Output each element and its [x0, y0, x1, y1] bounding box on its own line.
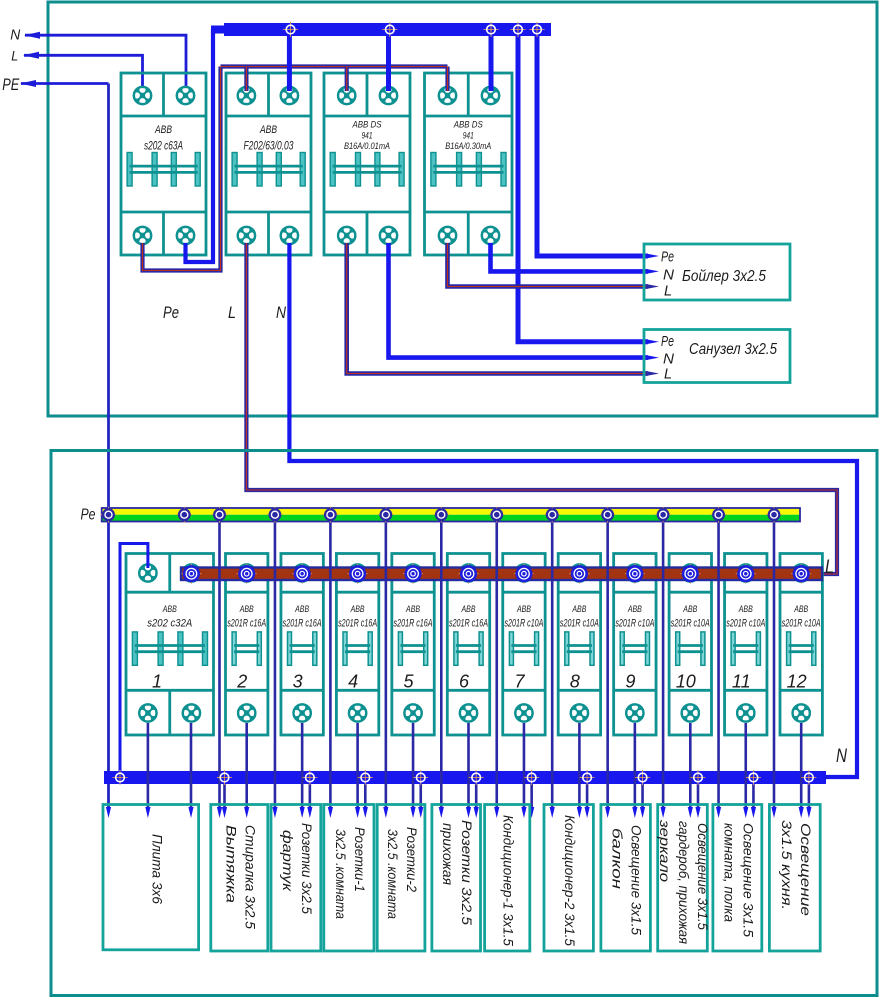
svg-text:N: N	[663, 267, 674, 284]
svg-text:Розетки-2: Розетки-2	[404, 827, 420, 892]
circuit breaker 7 ABB s201R c10А	[503, 554, 545, 736]
svg-text:12: 12	[787, 672, 807, 692]
wire L bathroom	[347, 243, 659, 376]
svg-text:s201R c10А: s201R c10А	[615, 618, 654, 630]
svg-text:фартук: фартук	[280, 830, 296, 893]
svg-text:941: 941	[362, 131, 373, 142]
N bus terminal bathroom Pe	[511, 22, 526, 37]
L bus terminals	[181, 564, 811, 584]
svg-text:ABB: ABB	[793, 604, 808, 615]
N bus terminal QF4	[484, 22, 499, 37]
wire PE to box 6	[439, 522, 444, 819]
wire N to box 10	[695, 784, 700, 818]
label Pe bus	[81, 507, 96, 524]
svg-text:PE: PE	[2, 75, 19, 94]
wire N to box 7	[529, 784, 534, 818]
label N node	[276, 303, 287, 322]
svg-text:s201R c16А: s201R c16А	[227, 618, 266, 630]
circuit breaker QF1 ABB s202 c63A	[121, 73, 206, 255]
svg-text:F202/63/0.03: F202/63/0.03	[244, 141, 294, 153]
svg-text:Бойлер 3х2.5: Бойлер 3х2.5	[682, 268, 766, 285]
load box 10 Освещение 3х1.5	[657, 805, 711, 952]
svg-text:11: 11	[732, 672, 751, 692]
N bus terminal QF2	[283, 22, 298, 37]
svg-text:L: L	[825, 557, 834, 578]
wire L to box 1	[145, 723, 150, 818]
svg-text:3х2.5 .комната: 3х2.5 .комната	[385, 829, 401, 919]
wire N loop from QF1 to N bus	[186, 29, 214, 262]
svg-text:941: 941	[463, 131, 474, 142]
load box bathroom	[644, 330, 790, 383]
svg-text:7: 7	[514, 672, 525, 692]
circuit breaker 8 ABB s201R c10А	[558, 554, 600, 736]
svg-text:10: 10	[676, 672, 696, 692]
svg-text:2: 2	[236, 672, 247, 692]
top panel enclosure	[48, 2, 877, 416]
wire L to box 7	[521, 723, 526, 818]
wire PE to box 4	[328, 522, 333, 819]
load box 6 Розетки 3х2.5	[432, 805, 481, 952]
wire N to box 6	[474, 784, 479, 818]
svg-text:ABB: ABB	[162, 604, 177, 615]
svg-text:Розетки-1: Розетки-1	[352, 827, 368, 892]
load box boiler	[644, 244, 790, 300]
label N bus	[836, 746, 847, 767]
wire L feed to lower panel	[246, 243, 837, 574]
svg-text:s201R c10А: s201R c10А	[671, 618, 710, 630]
circuit breaker 11 ABB s201R c10А	[725, 554, 767, 736]
wire PE to box 5	[383, 522, 388, 819]
wire L to box 11	[743, 723, 748, 818]
circuit breaker QF4 ABB DS941 B16A/0.30mA	[425, 73, 513, 255]
N bus bar (top)	[211, 23, 551, 36]
wire PE feed to lower panel	[107, 84, 110, 808]
wire N to box 3	[307, 784, 312, 818]
svg-text:6: 6	[459, 672, 470, 692]
circuit breaker 6 ABB s201R c16А	[447, 554, 489, 736]
svg-text:ABB: ABB	[154, 124, 172, 136]
svg-text:Санузел 3х2.5: Санузел 3х2.5	[689, 341, 777, 358]
wire Pe to bathroom box	[518, 36, 659, 344]
wire PE supply	[20, 80, 109, 87]
svg-text:ABB: ABB	[683, 604, 698, 615]
wire L to box 5	[410, 723, 415, 818]
svg-text:ABB DS: ABB DS	[453, 120, 483, 131]
N bus terminal boiler Pe	[530, 22, 545, 37]
svg-text:ABB: ABB	[405, 604, 420, 615]
svg-text:Pe: Pe	[661, 333, 674, 350]
svg-text:Освещение 3х1.5: Освещение 3х1.5	[740, 823, 756, 937]
N bus bar	[104, 771, 826, 784]
label PE supply	[2, 75, 19, 94]
wire N to box 9	[640, 784, 645, 818]
svg-text:зеркало: зеркало	[657, 819, 673, 882]
svg-text:4: 4	[348, 672, 358, 692]
svg-text:ABB: ABB	[516, 604, 531, 615]
load box 7 Кондиционер-1 3х1.5	[485, 805, 530, 952]
PE bus bar	[102, 508, 800, 522]
svg-text:Освещение 3х1.5: Освещение 3х1.5	[629, 825, 645, 935]
load box 8 Кондиционер-2 3х1.5	[544, 805, 593, 952]
wire N drop to QF2	[287, 36, 292, 91]
circuit breaker 9 ABB s201R c10А	[614, 554, 656, 736]
wire N supply	[24, 32, 186, 90]
wire N drop to QF3	[386, 36, 391, 91]
wire PE to box 9	[605, 522, 610, 819]
svg-text:гардероб, прихожая: гардероб, прихожая	[676, 821, 692, 944]
wire N drop to QF4	[489, 36, 494, 91]
wire L to box 4	[355, 723, 360, 818]
PE bus terminals	[101, 507, 783, 523]
svg-text:3х2.5 .комната: 3х2.5 .комната	[333, 829, 349, 919]
svg-text:s202 c32А: s202 c32А	[147, 618, 192, 630]
svg-text:s201R c16А: s201R c16А	[338, 618, 377, 630]
svg-text:8: 8	[570, 672, 580, 692]
svg-text:s201R c10А: s201R c10А	[504, 618, 543, 630]
svg-text:L: L	[228, 303, 236, 322]
label L bus	[825, 557, 834, 578]
svg-text:ABB: ABB	[350, 604, 365, 615]
wire L to box 2	[244, 723, 249, 818]
wire PE to box 12	[771, 522, 776, 819]
svg-text:ABB: ABB	[239, 604, 254, 615]
svg-text:L: L	[664, 366, 672, 383]
svg-text:N: N	[836, 746, 847, 767]
svg-text:ABB DS: ABB DS	[352, 120, 382, 131]
svg-text:прихожая: прихожая	[440, 823, 456, 886]
svg-text:B16A/0.30mA: B16A/0.30mA	[445, 141, 491, 152]
svg-text:комната, полка: комната, полка	[721, 823, 737, 922]
label N supply	[10, 28, 20, 44]
label Pe node	[163, 303, 179, 322]
wire L to box 6	[466, 723, 471, 818]
wire N to box 11	[751, 784, 756, 818]
svg-text:s201R c10А: s201R c10А	[782, 618, 821, 630]
svg-text:ABB: ABB	[572, 604, 587, 615]
circuit breaker 1 ABB s202 c32A	[126, 554, 214, 736]
svg-text:N: N	[276, 303, 287, 322]
svg-text:s201R c10А: s201R c10А	[726, 618, 765, 630]
svg-text:3х1.5 кухня.: 3х1.5 кухня.	[779, 820, 795, 910]
svg-text:s201R c16А: s201R c16А	[283, 618, 322, 630]
wire N to box 5	[418, 784, 423, 818]
wire N boiler	[491, 243, 660, 274]
wire PE to box 7	[494, 522, 499, 819]
wire L to box 3	[300, 723, 305, 818]
svg-text:B16A/0.01mA: B16A/0.01mA	[344, 141, 390, 152]
wire Pe to boiler box	[537, 36, 659, 259]
svg-text:ABB: ABB	[627, 604, 642, 615]
svg-text:1: 1	[152, 672, 162, 692]
load box 4 Розетки-1	[324, 805, 374, 952]
wire PE to box 1	[106, 807, 111, 818]
wire N to breaker 1	[120, 544, 148, 774]
svg-text:Pe: Pe	[81, 507, 96, 524]
wire L to box 9	[632, 723, 637, 818]
svg-text:Pe: Pe	[661, 249, 674, 266]
circuit breaker QF2 ABB F202/63/0.03 RCD	[226, 73, 311, 255]
circuit breaker 3 ABB s201R c16А	[281, 554, 323, 736]
svg-text:s202 c63A: s202 c63A	[144, 141, 183, 153]
wire L jumper across QF2 QF3 QF4	[221, 67, 448, 92]
wire PE to box 2	[217, 522, 222, 819]
svg-text:3: 3	[293, 672, 303, 692]
wire N to box 12	[806, 784, 811, 818]
svg-text:Кондиционер-2 3х1.5: Кондиционер-2 3х1.5	[562, 815, 578, 946]
circuit breaker QF3 ABB DS941 B16A/0.01mA	[324, 73, 410, 255]
svg-text:s201R c16А: s201R c16А	[394, 618, 433, 630]
wire N to box 2	[222, 784, 227, 818]
wire L to box 12	[799, 723, 804, 818]
svg-text:5: 5	[404, 672, 415, 692]
svg-text:Вытяжка: Вытяжка	[223, 825, 239, 903]
load box 12 Освещение	[769, 805, 820, 952]
svg-text:L: L	[664, 283, 672, 300]
wire L to box 8	[577, 723, 582, 818]
wire N to box 8	[585, 784, 590, 818]
svg-text:s201R c16А: s201R c16А	[449, 618, 488, 630]
load box 2 Стиралка 3х2.5	[211, 805, 268, 952]
svg-text:Освещение 3х1.5: Освещение 3х1.5	[695, 823, 711, 930]
wire N to box 4	[363, 784, 368, 818]
wire PE to box 8	[550, 522, 555, 819]
svg-text:Стиралка 3х2.5: Стиралка 3х2.5	[242, 825, 258, 929]
circuit breaker 5 ABB s201R c16А	[392, 554, 434, 736]
svg-text:s201R c10А: s201R c10А	[560, 618, 599, 630]
wire L supply	[23, 52, 143, 90]
N bus terminal QF3	[382, 22, 397, 37]
load box 3 Розетки 3х2.5	[271, 805, 321, 952]
wire PE to box 11	[716, 522, 721, 819]
circuit breaker 2 ABB s201R c16А	[226, 554, 268, 736]
N bus terminals	[113, 770, 817, 785]
svg-text:9: 9	[625, 672, 635, 692]
svg-text:ABB: ABB	[259, 124, 277, 136]
wire L to box 10	[688, 723, 693, 818]
svg-text:Розетки 3х2.5: Розетки 3х2.5	[459, 820, 475, 925]
wire L boiler	[448, 243, 660, 289]
svg-text:Освещение: Освещение	[798, 823, 814, 916]
lower panel enclosure	[51, 451, 877, 996]
load box 5 Розетки-2	[377, 805, 425, 952]
svg-text:ABB: ABB	[461, 604, 476, 615]
svg-text:ABB: ABB	[294, 604, 309, 615]
svg-text:N: N	[10, 28, 20, 44]
circuit breaker 12 ABB s201R c10А	[780, 554, 822, 736]
svg-text:Розетки 3х2.5: Розетки 3х2.5	[299, 823, 315, 914]
L bus bar	[181, 568, 822, 581]
svg-text:Плита 3х6: Плита 3х6	[149, 834, 165, 904]
load box 11 Освещение 3х1.5	[713, 805, 762, 952]
wire L loop from QF1 to L jumper	[143, 67, 221, 271]
wire PE to box 10	[661, 522, 666, 819]
svg-text:ABB: ABB	[738, 604, 753, 615]
svg-text:балкон: балкон	[610, 828, 626, 889]
svg-text:Кондиционер-1 3х1.5: Кондиционер-1 3х1.5	[501, 815, 517, 946]
wire PE to box 3	[272, 522, 277, 819]
load box 9 Освещение 3х1.5	[601, 805, 651, 952]
wire N bathroom	[389, 243, 660, 360]
circuit breaker 10 ABB s201R c10А	[669, 554, 711, 736]
wire N to box 1	[188, 723, 193, 818]
svg-text:L: L	[11, 49, 18, 64]
svg-text:Pe: Pe	[163, 303, 179, 322]
load box 1 Плита 3х6	[103, 805, 199, 950]
circuit breaker 4 ABB s201R c16А	[336, 554, 378, 736]
label L supply	[11, 49, 18, 64]
label L node	[228, 303, 236, 322]
wire N feed to lower panel	[289, 243, 857, 777]
